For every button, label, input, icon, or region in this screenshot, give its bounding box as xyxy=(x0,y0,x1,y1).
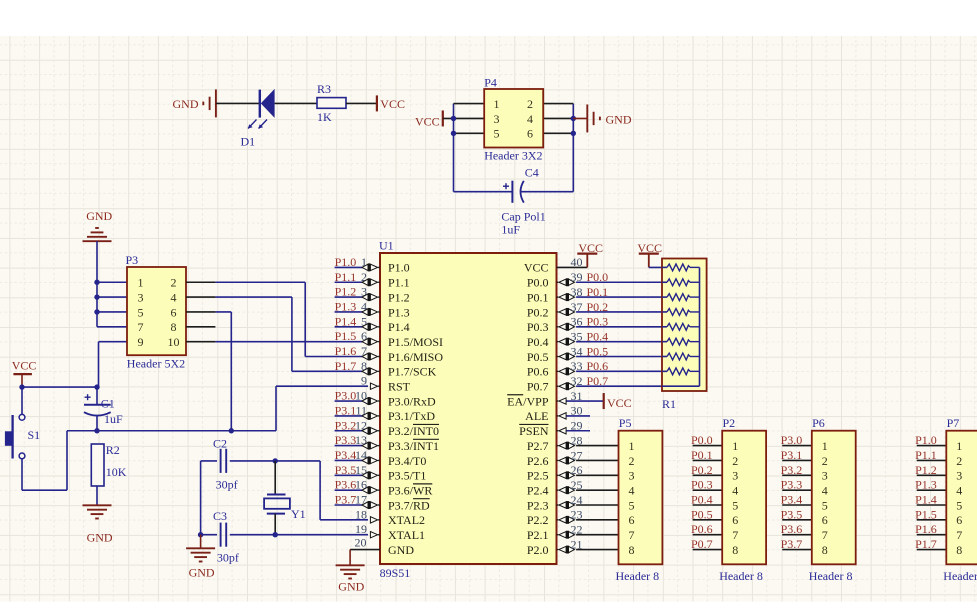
svg-text:8: 8 xyxy=(822,543,828,557)
svg-text:P0.4: P0.4 xyxy=(691,493,713,507)
svg-text:P3.5: P3.5 xyxy=(335,463,357,477)
svg-text:VCC: VCC xyxy=(637,241,662,255)
svg-text:22: 22 xyxy=(571,523,583,537)
svg-text:P0.3: P0.3 xyxy=(587,315,609,329)
svg-text:P3.7/RD: P3.7/RD xyxy=(388,498,430,512)
svg-text:P1.2: P1.2 xyxy=(335,285,357,299)
svg-text:PSEN: PSEN xyxy=(519,424,549,438)
svg-text:P0.2: P0.2 xyxy=(587,300,609,314)
svg-text:R2: R2 xyxy=(106,443,120,457)
svg-text:7: 7 xyxy=(732,528,738,542)
svg-text:P3.5/T1: P3.5/T1 xyxy=(388,469,426,483)
svg-text:4: 4 xyxy=(956,483,962,497)
svg-text:P3.2/INT0: P3.2/INT0 xyxy=(388,424,439,438)
svg-text:8: 8 xyxy=(732,543,738,557)
svg-text:VCC: VCC xyxy=(415,115,440,129)
svg-text:ALE: ALE xyxy=(525,409,548,423)
svg-text:P2: P2 xyxy=(723,416,736,430)
svg-text:23: 23 xyxy=(571,508,583,522)
svg-text:P5: P5 xyxy=(619,416,632,430)
svg-text:P1.2: P1.2 xyxy=(388,290,410,304)
svg-text:P0.7: P0.7 xyxy=(587,374,609,388)
svg-text:P0.6: P0.6 xyxy=(587,359,609,373)
svg-text:P1.7/SCK: P1.7/SCK xyxy=(388,365,437,379)
svg-text:9: 9 xyxy=(138,335,144,349)
svg-text:P0.7: P0.7 xyxy=(691,537,713,551)
svg-text:P0.2: P0.2 xyxy=(527,305,549,319)
svg-text:19: 19 xyxy=(355,522,367,536)
svg-text:7: 7 xyxy=(629,528,635,542)
svg-text:35: 35 xyxy=(571,329,583,343)
svg-text:P6: P6 xyxy=(812,416,825,430)
svg-text:VCC: VCC xyxy=(12,359,37,373)
svg-text:S1: S1 xyxy=(28,428,41,442)
svg-text:P1.7: P1.7 xyxy=(915,537,937,551)
svg-text:P1.6/MISO: P1.6/MISO xyxy=(388,350,443,364)
svg-text:D1: D1 xyxy=(241,134,256,148)
svg-text:P3.2: P3.2 xyxy=(335,418,357,432)
svg-text:3: 3 xyxy=(822,469,828,483)
svg-text:P1.5: P1.5 xyxy=(915,507,937,521)
svg-text:4: 4 xyxy=(171,290,177,304)
svg-text:20: 20 xyxy=(355,536,367,550)
svg-text:P0.4: P0.4 xyxy=(587,329,609,343)
svg-text:38: 38 xyxy=(571,285,583,299)
svg-text:3: 3 xyxy=(956,469,962,483)
svg-text:7: 7 xyxy=(138,320,144,334)
svg-text:25: 25 xyxy=(571,478,583,492)
svg-text:37: 37 xyxy=(571,300,583,314)
svg-text:P3.2: P3.2 xyxy=(781,463,803,477)
svg-text:5: 5 xyxy=(732,498,738,512)
svg-text:P1.5: P1.5 xyxy=(335,329,357,343)
svg-text:P1.6: P1.6 xyxy=(915,522,937,536)
svg-text:1: 1 xyxy=(629,439,635,453)
svg-text:3: 3 xyxy=(629,469,635,483)
svg-text:U1: U1 xyxy=(379,239,394,253)
svg-text:C2: C2 xyxy=(213,436,227,450)
svg-text:P0.1: P0.1 xyxy=(587,285,609,299)
svg-text:P1.4: P1.4 xyxy=(388,320,410,334)
svg-text:P1.4: P1.4 xyxy=(915,493,937,507)
svg-text:P1.4: P1.4 xyxy=(335,314,357,328)
svg-text:P3.4/T0: P3.4/T0 xyxy=(388,454,426,468)
svg-text:P3.4: P3.4 xyxy=(781,493,803,507)
svg-text:P3.6: P3.6 xyxy=(781,522,803,536)
svg-text:P7: P7 xyxy=(947,416,960,430)
svg-text:Header 8: Header 8 xyxy=(809,569,853,583)
svg-text:1K: 1K xyxy=(317,110,332,124)
svg-text:GND: GND xyxy=(189,565,215,579)
svg-text:1: 1 xyxy=(494,97,500,111)
svg-text:P3.1/TxD: P3.1/TxD xyxy=(388,409,435,423)
svg-text:P3.3: P3.3 xyxy=(335,433,357,447)
svg-text:34: 34 xyxy=(571,344,583,358)
svg-text:EA/VPP: EA/VPP xyxy=(507,394,549,408)
svg-text:6: 6 xyxy=(527,127,533,141)
svg-text:10K: 10K xyxy=(106,465,127,479)
svg-text:P2.6: P2.6 xyxy=(527,454,549,468)
svg-text:P0.6: P0.6 xyxy=(527,365,549,379)
svg-text:P3.1: P3.1 xyxy=(335,403,357,417)
svg-text:P2.2: P2.2 xyxy=(527,513,549,527)
svg-text:10: 10 xyxy=(168,335,180,349)
svg-text:R3: R3 xyxy=(317,82,331,96)
svg-text:P3.7: P3.7 xyxy=(335,493,357,507)
svg-text:32: 32 xyxy=(571,374,583,388)
svg-text:39: 39 xyxy=(571,270,583,284)
svg-text:30pf: 30pf xyxy=(216,477,238,491)
svg-text:RST: RST xyxy=(388,380,411,394)
svg-text:6: 6 xyxy=(822,513,828,527)
svg-text:31: 31 xyxy=(571,389,583,403)
svg-text:29: 29 xyxy=(571,419,583,433)
svg-text:P3.4: P3.4 xyxy=(335,448,357,462)
svg-text:2: 2 xyxy=(956,454,962,468)
svg-text:6: 6 xyxy=(171,305,177,319)
svg-text:P0.0: P0.0 xyxy=(527,276,549,290)
svg-text:1: 1 xyxy=(732,439,738,453)
svg-text:Header 3X2: Header 3X2 xyxy=(484,149,542,163)
svg-text:28: 28 xyxy=(571,433,583,447)
svg-text:21: 21 xyxy=(571,537,583,551)
svg-text:7: 7 xyxy=(822,528,828,542)
svg-text:P3: P3 xyxy=(126,253,139,267)
svg-text:P1.0: P1.0 xyxy=(915,433,937,447)
svg-text:P3.3/INT1: P3.3/INT1 xyxy=(388,439,439,453)
svg-text:P4: P4 xyxy=(484,76,497,90)
svg-text:P0.5: P0.5 xyxy=(587,344,609,358)
svg-text:18: 18 xyxy=(355,507,367,521)
svg-text:3: 3 xyxy=(494,112,500,126)
svg-text:5: 5 xyxy=(629,498,635,512)
svg-text:P3.7: P3.7 xyxy=(781,537,803,551)
svg-text:Header 5X2: Header 5X2 xyxy=(127,357,185,371)
svg-text:XTAL2: XTAL2 xyxy=(388,513,425,527)
svg-text:P1.0: P1.0 xyxy=(335,255,357,269)
svg-text:P2.5: P2.5 xyxy=(527,469,549,483)
svg-text:8: 8 xyxy=(171,320,177,334)
svg-text:P2.4: P2.4 xyxy=(527,483,549,497)
svg-text:4: 4 xyxy=(732,483,738,497)
svg-text:P3.0: P3.0 xyxy=(335,389,357,403)
svg-text:P0.3: P0.3 xyxy=(527,320,549,334)
svg-text:XTAL1: XTAL1 xyxy=(388,528,425,542)
svg-text:P3.0/RxD: P3.0/RxD xyxy=(388,394,436,408)
svg-text:6: 6 xyxy=(956,513,962,527)
svg-text:R1: R1 xyxy=(662,397,676,411)
svg-text:P0.3: P0.3 xyxy=(691,478,713,492)
svg-text:Cap Pol1: Cap Pol1 xyxy=(501,210,545,224)
svg-text:P0.0: P0.0 xyxy=(691,433,713,447)
svg-text:1: 1 xyxy=(822,439,828,453)
svg-text:P2.7: P2.7 xyxy=(527,439,549,453)
svg-text:P2.3: P2.3 xyxy=(527,498,549,512)
svg-text:P1.7: P1.7 xyxy=(335,359,357,373)
svg-text:Header 8: Header 8 xyxy=(719,569,763,583)
svg-text:8: 8 xyxy=(956,543,962,557)
svg-text:2: 2 xyxy=(527,97,533,111)
svg-text:8: 8 xyxy=(629,543,635,557)
svg-text:36: 36 xyxy=(571,315,583,329)
svg-text:Y1: Y1 xyxy=(291,507,306,521)
svg-text:5: 5 xyxy=(494,127,500,141)
svg-text:2: 2 xyxy=(822,454,828,468)
svg-text:30: 30 xyxy=(571,404,583,418)
svg-text:P0.7: P0.7 xyxy=(527,380,549,394)
svg-text:3: 3 xyxy=(732,469,738,483)
svg-text:27: 27 xyxy=(571,448,583,462)
svg-text:P1.3: P1.3 xyxy=(388,305,410,319)
svg-text:26: 26 xyxy=(571,463,583,477)
svg-text:C3: C3 xyxy=(213,509,227,523)
svg-text:1uF: 1uF xyxy=(104,412,123,426)
svg-text:VCC: VCC xyxy=(524,261,549,275)
svg-text:4: 4 xyxy=(822,483,828,497)
svg-text:P0.2: P0.2 xyxy=(691,463,713,477)
svg-text:5: 5 xyxy=(956,498,962,512)
svg-text:89S51: 89S51 xyxy=(380,566,411,580)
svg-text:P2.0: P2.0 xyxy=(527,543,549,557)
svg-text:VCC: VCC xyxy=(578,241,603,255)
svg-text:5: 5 xyxy=(138,305,144,319)
svg-text:VCC: VCC xyxy=(380,97,405,111)
svg-text:C1: C1 xyxy=(101,397,115,411)
svg-text:GND: GND xyxy=(87,531,113,545)
svg-text:GND: GND xyxy=(173,97,199,111)
svg-text:P0.5: P0.5 xyxy=(527,350,549,364)
svg-text:1: 1 xyxy=(956,439,962,453)
svg-text:GND: GND xyxy=(388,543,414,557)
svg-text:P1.2: P1.2 xyxy=(915,463,937,477)
svg-text:Header 8: Header 8 xyxy=(616,569,660,583)
svg-text:30pf: 30pf xyxy=(217,550,239,564)
svg-text:P3.3: P3.3 xyxy=(781,478,803,492)
svg-text:P3.0: P3.0 xyxy=(781,433,803,447)
svg-text:GND: GND xyxy=(606,112,632,126)
svg-text:P3.6: P3.6 xyxy=(335,478,357,492)
svg-text:P3.6/WR: P3.6/WR xyxy=(388,483,432,497)
svg-text:C4: C4 xyxy=(525,166,539,180)
svg-text:GND: GND xyxy=(338,580,364,594)
svg-text:P0.6: P0.6 xyxy=(691,522,713,536)
svg-text:VCC: VCC xyxy=(607,396,632,410)
svg-text:1: 1 xyxy=(138,276,144,290)
svg-text:P0.1: P0.1 xyxy=(691,448,713,462)
svg-text:P1.5/MOSI: P1.5/MOSI xyxy=(388,335,443,349)
svg-text:P1.0: P1.0 xyxy=(388,261,410,275)
svg-text:P1.3: P1.3 xyxy=(335,299,357,313)
svg-text:33: 33 xyxy=(571,359,583,373)
svg-text:24: 24 xyxy=(571,493,583,507)
svg-text:P1.1: P1.1 xyxy=(915,448,937,462)
svg-text:2: 2 xyxy=(629,454,635,468)
svg-text:5: 5 xyxy=(822,498,828,512)
svg-text:9: 9 xyxy=(361,374,367,388)
svg-text:7: 7 xyxy=(956,528,962,542)
svg-text:3: 3 xyxy=(138,290,144,304)
svg-text:P0.5: P0.5 xyxy=(691,507,713,521)
svg-text:P1.1: P1.1 xyxy=(388,276,410,290)
svg-text:P0.4: P0.4 xyxy=(527,335,549,349)
svg-text:P2.1: P2.1 xyxy=(527,528,549,542)
svg-text:P1.3: P1.3 xyxy=(915,478,937,492)
svg-text:GND: GND xyxy=(86,209,112,223)
svg-text:40: 40 xyxy=(571,255,583,269)
svg-text:P1.1: P1.1 xyxy=(335,270,357,284)
svg-text:4: 4 xyxy=(527,112,533,126)
svg-text:6: 6 xyxy=(732,513,738,527)
svg-text:2: 2 xyxy=(732,454,738,468)
svg-text:4: 4 xyxy=(629,483,635,497)
svg-text:P3.1: P3.1 xyxy=(781,448,803,462)
svg-text:Header 8: Header 8 xyxy=(943,569,977,583)
svg-text:P0.0: P0.0 xyxy=(587,270,609,284)
svg-text:2: 2 xyxy=(171,276,177,290)
svg-text:6: 6 xyxy=(629,513,635,527)
svg-text:P0.1: P0.1 xyxy=(527,290,549,304)
svg-text:P1.6: P1.6 xyxy=(335,344,357,358)
svg-text:1uF: 1uF xyxy=(501,223,520,237)
svg-text:P3.5: P3.5 xyxy=(781,507,803,521)
